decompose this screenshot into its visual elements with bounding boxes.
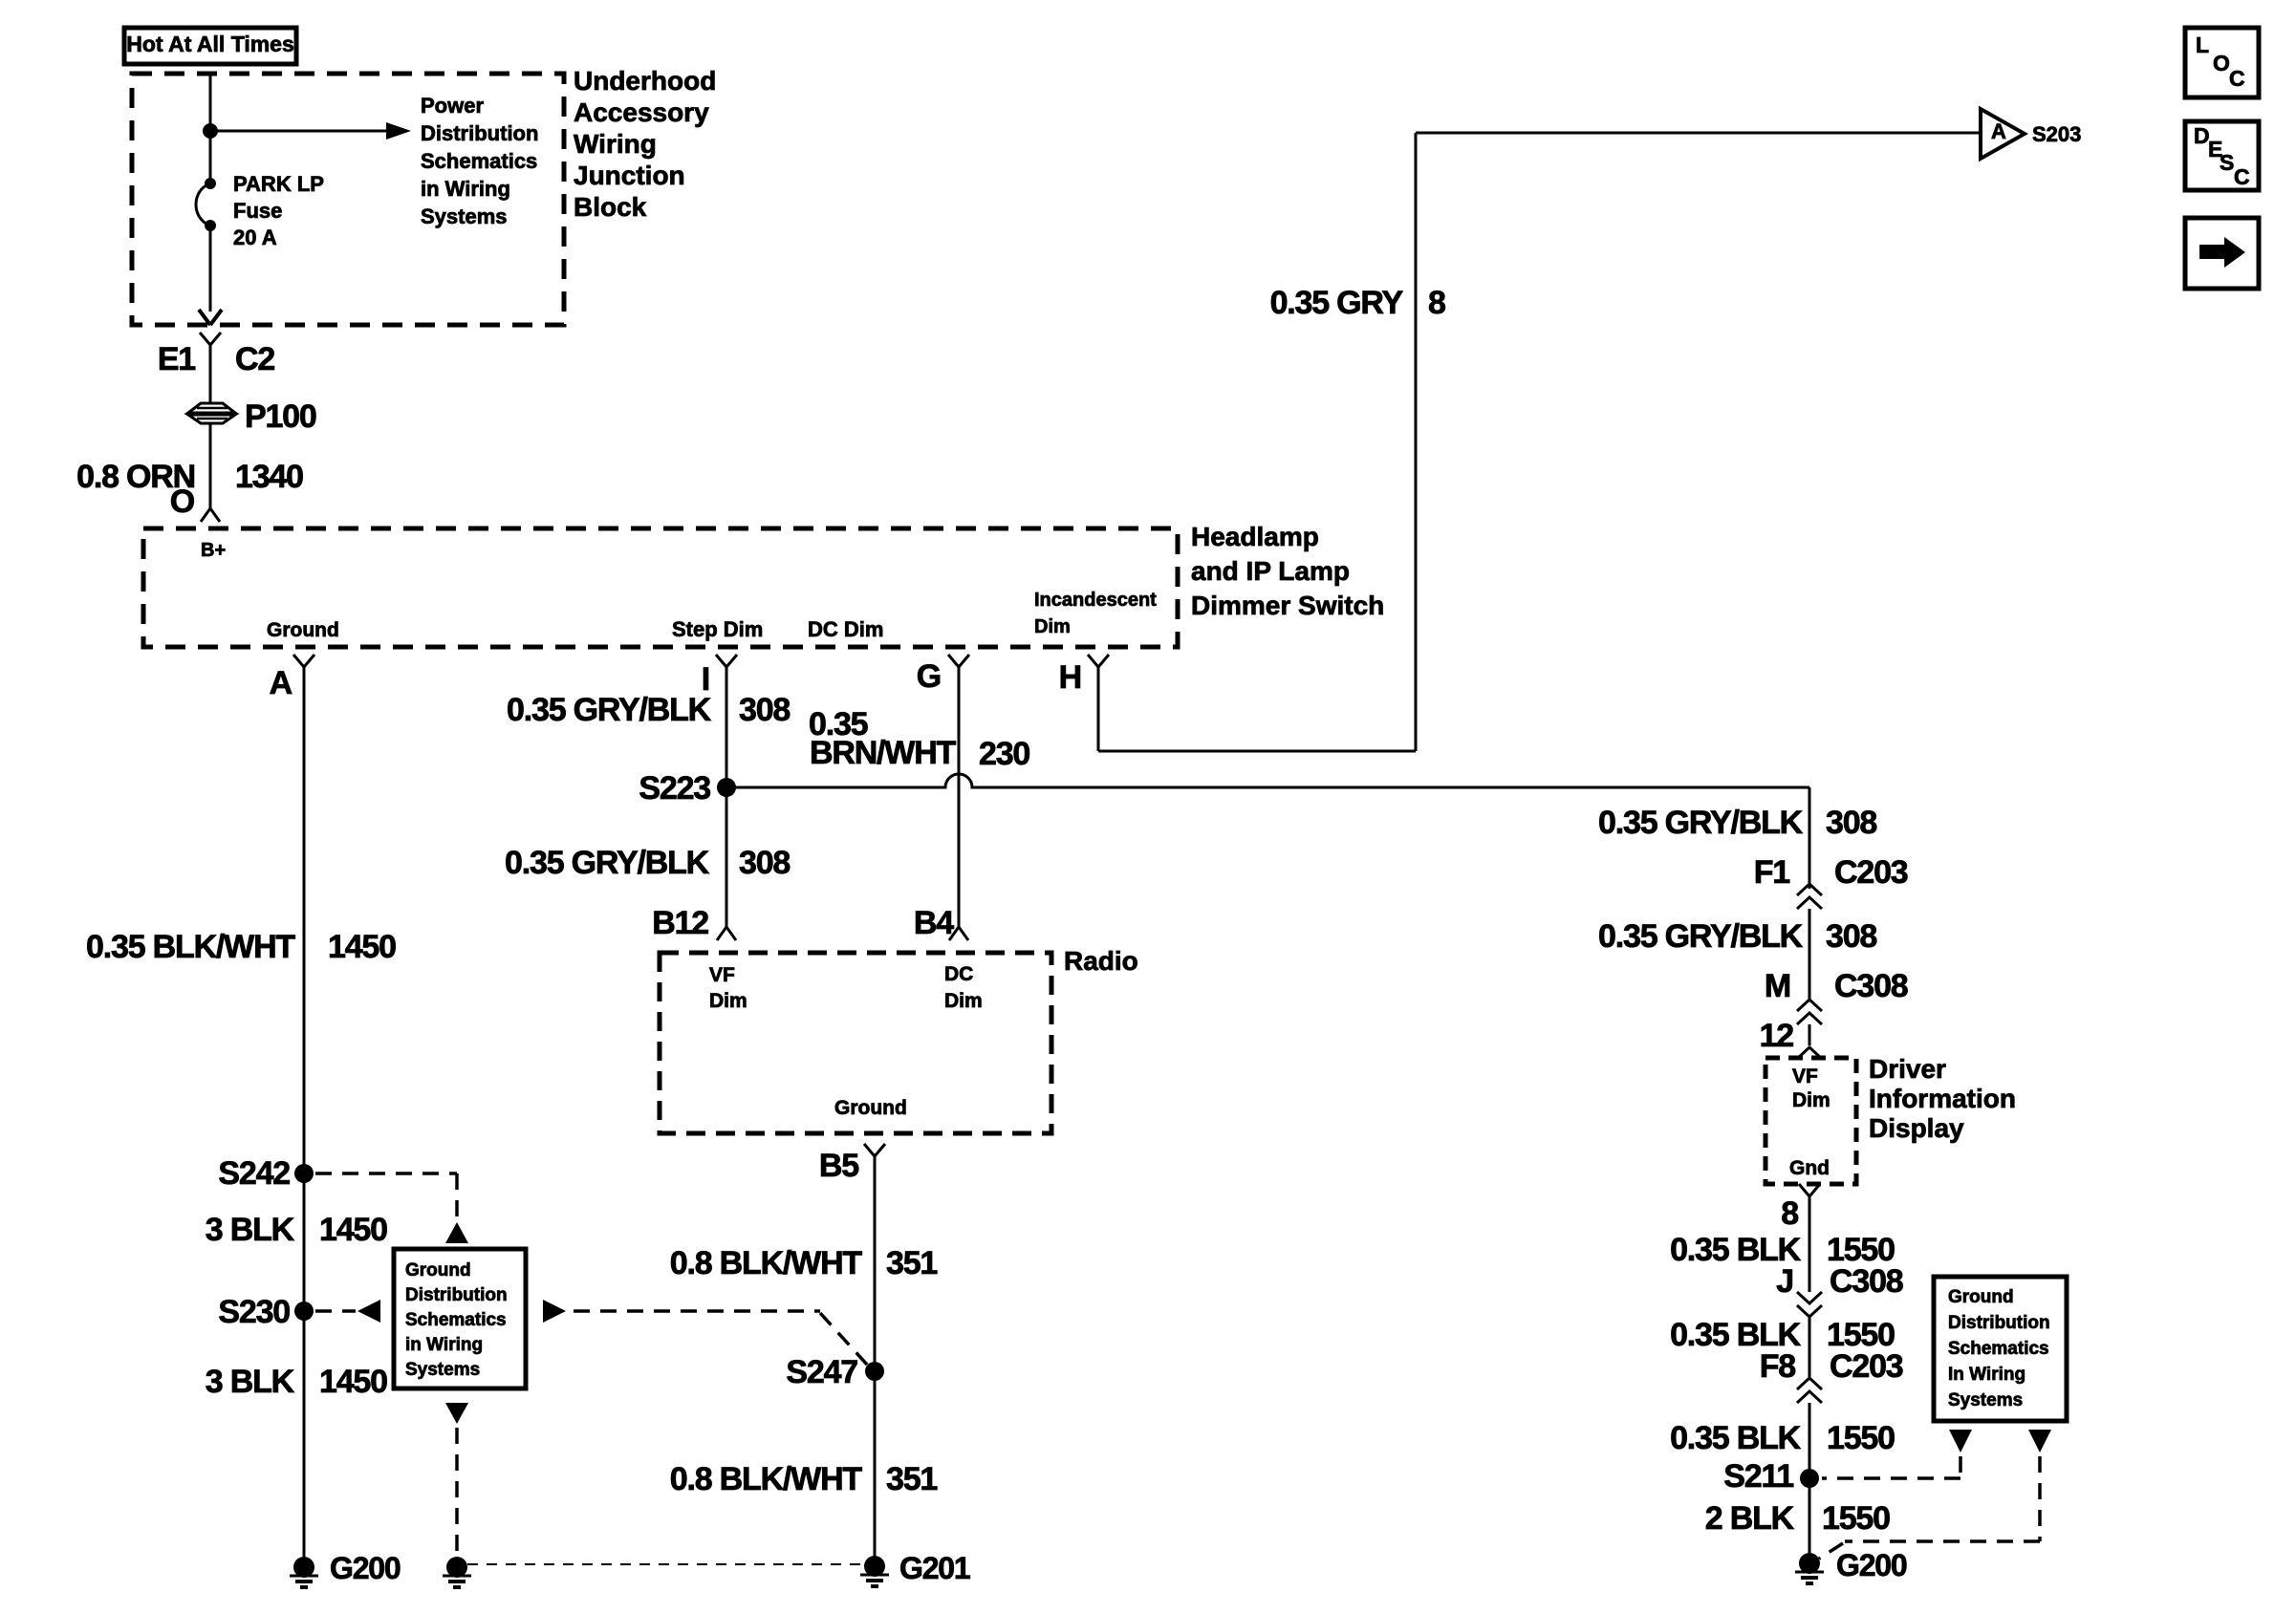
svg-text:B12: B12	[652, 905, 708, 941]
svg-text:230: 230	[979, 736, 1029, 772]
svg-text:12: 12	[1760, 1018, 1794, 1054]
svg-text:C308: C308	[1830, 1263, 1903, 1300]
svg-text:1450: 1450	[328, 929, 396, 965]
svg-text:308: 308	[1826, 805, 1876, 841]
svg-text:S230: S230	[218, 1294, 290, 1330]
svg-text:C203: C203	[1830, 1348, 1903, 1385]
svg-text:Dim: Dim	[944, 990, 983, 1012]
svg-text:P100: P100	[245, 398, 316, 435]
svg-text:Display: Display	[1869, 1113, 1964, 1143]
svg-text:S223: S223	[639, 770, 710, 807]
svg-text:F8: F8	[1760, 1348, 1796, 1385]
svg-text:1340: 1340	[235, 459, 303, 495]
svg-text:Underhood: Underhood	[574, 66, 716, 96]
svg-text:S242: S242	[218, 1155, 290, 1192]
svg-text:Information: Information	[1869, 1084, 2016, 1113]
svg-text:Ground: Ground	[405, 1260, 471, 1280]
svg-text:F1: F1	[1754, 854, 1790, 891]
svg-text:S211: S211	[1723, 1458, 1793, 1495]
svg-text:Ground: Ground	[834, 1097, 907, 1119]
svg-text:308: 308	[739, 845, 790, 881]
svg-text:S: S	[2220, 150, 2234, 175]
svg-text:Step Dim: Step Dim	[672, 617, 763, 641]
svg-text:Systems: Systems	[1948, 1390, 2023, 1410]
svg-text:C: C	[2229, 66, 2245, 91]
svg-text:Driver: Driver	[1869, 1054, 1946, 1084]
svg-text:8: 8	[1781, 1195, 1798, 1232]
svg-text:G201: G201	[899, 1551, 970, 1585]
svg-text:0.8 BLK/WHT: 0.8 BLK/WHT	[670, 1245, 863, 1281]
svg-text:Ground: Ground	[1948, 1287, 2014, 1307]
svg-text:M: M	[1765, 968, 1790, 1004]
svg-text:1550: 1550	[1822, 1500, 1890, 1537]
svg-text:DC Dim: DC Dim	[808, 617, 883, 641]
svg-text:Systems: Systems	[405, 1360, 480, 1380]
svg-text:C2: C2	[235, 341, 274, 377]
svg-text:Systems: Systems	[421, 204, 508, 228]
svg-text:VF: VF	[709, 964, 735, 986]
svg-text:in Wiring: in Wiring	[405, 1335, 483, 1355]
svg-text:0.35 BLK: 0.35 BLK	[1670, 1420, 1802, 1456]
svg-text:0.35 GRY/BLK: 0.35 GRY/BLK	[1598, 805, 1804, 841]
svg-text:1450: 1450	[319, 1364, 387, 1400]
svg-text:H: H	[1059, 659, 1081, 696]
svg-text:Hot At All Times: Hot At All Times	[126, 32, 294, 56]
svg-text:8: 8	[1428, 285, 1445, 321]
svg-text:B5: B5	[819, 1148, 858, 1184]
svg-text:Dim: Dim	[709, 990, 747, 1012]
svg-text:Fuse: Fuse	[233, 199, 282, 223]
svg-text:A: A	[1991, 119, 2006, 143]
svg-text:and IP Lamp: and IP Lamp	[1191, 556, 1350, 586]
svg-text:J: J	[1776, 1263, 1793, 1300]
svg-text:Headlamp: Headlamp	[1191, 522, 1319, 551]
svg-text:VF: VF	[1792, 1065, 1818, 1087]
svg-text:O: O	[2213, 51, 2230, 75]
svg-text:2 BLK: 2 BLK	[1705, 1500, 1795, 1537]
svg-text:Gnd: Gnd	[1789, 1157, 1830, 1179]
svg-text:20 A: 20 A	[233, 226, 277, 249]
svg-text:308: 308	[1826, 918, 1876, 955]
svg-text:C: C	[2234, 164, 2250, 189]
svg-text:Dim: Dim	[1792, 1089, 1830, 1111]
svg-text:3 BLK: 3 BLK	[206, 1364, 295, 1400]
svg-text:B4: B4	[914, 905, 954, 941]
svg-text:C308: C308	[1834, 968, 1908, 1004]
svg-text:1450: 1450	[319, 1212, 387, 1248]
svg-text:1550: 1550	[1827, 1420, 1895, 1456]
svg-text:Distribution: Distribution	[405, 1285, 508, 1305]
svg-text:PARK LP: PARK LP	[233, 172, 324, 196]
svg-text:Schematics: Schematics	[421, 149, 537, 173]
svg-text:351: 351	[886, 1245, 937, 1281]
svg-text:0.35 GRY/BLK: 0.35 GRY/BLK	[507, 692, 712, 728]
svg-text:E1: E1	[158, 341, 195, 377]
svg-text:Radio: Radio	[1064, 946, 1138, 976]
svg-text:Incandescent: Incandescent	[1034, 590, 1157, 611]
svg-text:351: 351	[886, 1461, 937, 1497]
svg-text:308: 308	[739, 692, 790, 728]
svg-text:Dim: Dim	[1034, 616, 1071, 637]
svg-text:3 BLK: 3 BLK	[206, 1212, 295, 1248]
svg-text:in Wiring: in Wiring	[421, 177, 510, 201]
svg-text:G200: G200	[330, 1551, 401, 1585]
svg-text:Junction: Junction	[574, 161, 685, 190]
svg-text:Wiring: Wiring	[574, 129, 657, 159]
svg-text:O: O	[170, 484, 195, 520]
svg-text:C203: C203	[1834, 854, 1908, 891]
svg-text:Distribution: Distribution	[1948, 1313, 2050, 1333]
svg-text:Power: Power	[421, 94, 484, 118]
svg-text:DC: DC	[944, 963, 973, 985]
svg-text:S203: S203	[2032, 122, 2081, 146]
svg-text:Schematics: Schematics	[1948, 1339, 2049, 1359]
svg-text:0.35 GRY/BLK: 0.35 GRY/BLK	[1598, 918, 1804, 955]
svg-text:S247: S247	[786, 1354, 857, 1390]
svg-text:G200: G200	[1836, 1548, 1907, 1582]
svg-text:Block: Block	[574, 192, 647, 222]
svg-text:0.8 BLK/WHT: 0.8 BLK/WHT	[670, 1461, 863, 1497]
svg-text:Accessory: Accessory	[574, 97, 709, 127]
svg-text:0.35 GRY/BLK: 0.35 GRY/BLK	[505, 845, 710, 881]
svg-text:Ground: Ground	[267, 619, 339, 641]
svg-text:Schematics: Schematics	[405, 1310, 507, 1330]
svg-text:A: A	[270, 665, 292, 701]
svg-text:B+: B+	[201, 540, 226, 561]
svg-text:Dimmer Switch: Dimmer Switch	[1191, 591, 1384, 620]
svg-text:G: G	[917, 658, 941, 695]
svg-text:In Wiring: In Wiring	[1948, 1365, 2025, 1385]
svg-text:L: L	[2196, 32, 2209, 57]
svg-text:BRN/WHT: BRN/WHT	[810, 735, 957, 771]
svg-text:0.35 GRY: 0.35 GRY	[1270, 285, 1404, 321]
svg-text:Distribution: Distribution	[421, 121, 538, 145]
svg-text:0.35 BLK/WHT: 0.35 BLK/WHT	[86, 929, 295, 965]
